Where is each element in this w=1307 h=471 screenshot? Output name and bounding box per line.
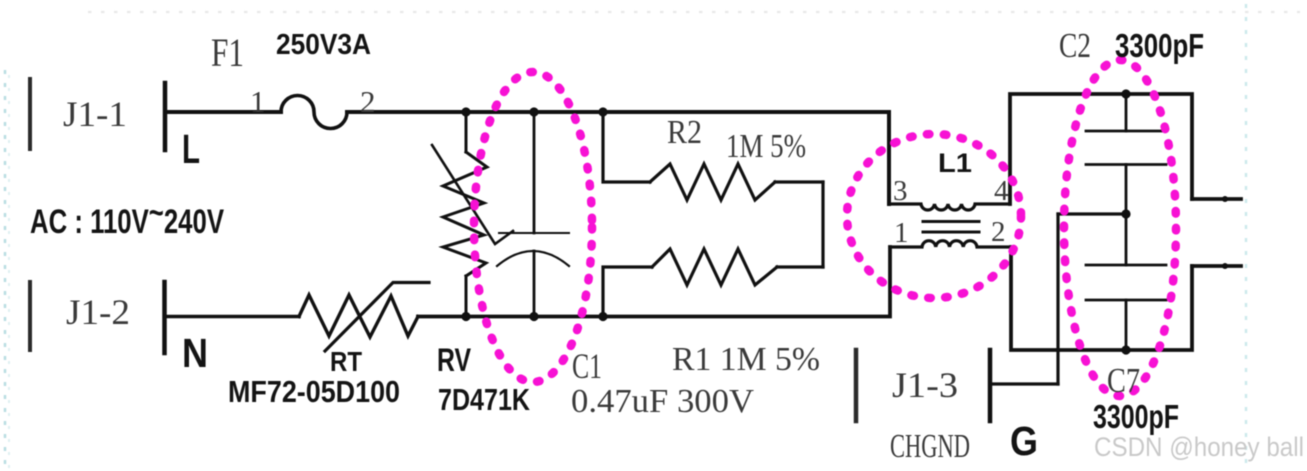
- svg-text:1: 1: [250, 84, 266, 119]
- junction dot stub bottom: [1222, 263, 1228, 269]
- wire output stub bottom: [1192, 264, 1241, 268]
- capacitor C1 lead bottom: [533, 251, 536, 317]
- wire R2 to R1 right vertical: [821, 182, 824, 267]
- capacitor C1 lead top: [533, 112, 536, 233]
- varistor RV lead bottom: [465, 276, 468, 317]
- border dotted left: [4, 70, 7, 468]
- inductor L1 top winding: [889, 204, 1010, 210]
- svg-text:J1-1: J1-1: [63, 94, 127, 134]
- capacitor C7 plate 1: [1086, 264, 1166, 267]
- capacitor C7 plate 2: [1086, 299, 1166, 302]
- svg-text:F1: F1: [211, 30, 244, 75]
- svg-text:1M 5%: 1M 5%: [726, 128, 806, 165]
- junction dot N at C1: [529, 312, 538, 321]
- junction dot C2-C7 mid: [1121, 209, 1130, 218]
- resistor R2 zigzag: [650, 164, 775, 200]
- svg-text:L: L: [182, 126, 200, 172]
- connector J1-3 terminal bar: [988, 350, 993, 421]
- junction dot L at R2: [598, 107, 607, 116]
- svg-text:AC : 110V~240V: AC : 110V~240V: [30, 194, 224, 241]
- connector J1-1 terminal bar: [163, 83, 168, 150]
- wire ground branch to J1-3: [990, 382, 1058, 385]
- capacitor C7 lead top: [1125, 214, 1128, 265]
- svg-text:3300pF: 3300pF: [1093, 398, 1179, 435]
- wire right edge vertical bottom: [1126, 266, 1192, 350]
- wire L node C1 to node R2: [534, 110, 603, 114]
- connector J1-3 outer bar: [854, 350, 859, 421]
- capacitor C1 top plate: [499, 232, 569, 234]
- svg-text:7D471K: 7D471K: [438, 382, 530, 417]
- wire L node R2 to L1 pin3 corner: [603, 112, 889, 204]
- capacitor C2 lead bottom: [1125, 165, 1128, 215]
- svg-text:G: G: [1010, 418, 1038, 464]
- junction dot C7 bottom: [1121, 345, 1130, 354]
- svg-text:C7: C7: [1107, 361, 1140, 400]
- wire L1 pin2 down to right bottom rail: [1011, 247, 1126, 350]
- wire L from fuse to node RV: [347, 110, 466, 114]
- connector J1-2 outer bar: [28, 282, 32, 350]
- highlight ellipse around L1: [847, 134, 1021, 298]
- resistor R1 left lead: [603, 267, 652, 317]
- thermistor RT slash: [325, 283, 429, 352]
- junction dot C2 top: [1121, 89, 1130, 98]
- wire N node R1 to L1 pin1 corner: [603, 247, 890, 317]
- wire right top rail to right edge vertical: [1126, 94, 1192, 199]
- resistor R2 right lead: [775, 180, 823, 183]
- junction dot stub top: [1222, 196, 1228, 202]
- svg-text:0.47uF 300V: 0.47uF 300V: [571, 383, 754, 420]
- wire L node RV to node C1: [466, 110, 534, 114]
- resistor R1 zigzag: [652, 249, 777, 285]
- svg-text:2: 2: [991, 216, 1006, 248]
- inductor L1 core line 2: [923, 231, 979, 234]
- svg-text:R2: R2: [667, 114, 702, 151]
- wire L1 pin4 up to right top rail: [1010, 94, 1126, 204]
- svg-text:C1: C1: [572, 346, 602, 386]
- connector J1-2 terminal bar: [162, 282, 167, 353]
- capacitor C7 lead bottom: [1125, 300, 1128, 350]
- junction dot L at RV: [461, 107, 470, 116]
- svg-text:J1-2: J1-2: [66, 292, 130, 332]
- wire N from RT to node RV: [418, 315, 466, 319]
- svg-text:4: 4: [994, 175, 1009, 207]
- svg-text:3300pF: 3300pF: [1115, 27, 1204, 64]
- svg-text:MF72-05D100: MF72-05D100: [228, 374, 400, 409]
- svg-text:J1-3: J1-3: [892, 365, 958, 405]
- thermistor RT zigzag: [299, 295, 418, 337]
- varistor RV lead top: [465, 112, 468, 152]
- capacitor C2 plate 2: [1086, 163, 1166, 166]
- wire N from J1-2 to RT: [165, 315, 300, 319]
- wire N node RV to node C1: [466, 315, 534, 319]
- svg-text:2: 2: [360, 84, 376, 119]
- inductor L1 core line 1: [923, 220, 979, 223]
- svg-text:3: 3: [893, 175, 908, 207]
- capacitor C2 lead top: [1125, 94, 1128, 131]
- svg-text:250V3A: 250V3A: [276, 29, 371, 61]
- wire ground branch vertical: [1056, 214, 1059, 384]
- svg-text:CHGND: CHGND: [890, 428, 970, 465]
- svg-text:RV: RV: [437, 342, 472, 378]
- svg-text:RT: RT: [330, 346, 362, 377]
- resistor R2 left lead: [603, 112, 650, 182]
- svg-text:R1 1M 5%: R1 1M 5%: [672, 341, 820, 378]
- highlight ellipse around C1: [474, 72, 592, 382]
- svg-text:1: 1: [894, 217, 909, 249]
- inductor L1 bottom winding: [890, 241, 1011, 247]
- wire output stub top: [1192, 197, 1241, 201]
- fuse F1 body: [281, 96, 347, 129]
- highlight ellipse around C2 C7: [1064, 60, 1176, 396]
- svg-text:C2: C2: [1059, 26, 1091, 65]
- svg-text:CSDN @honey ball: CSDN @honey ball: [1094, 432, 1304, 462]
- connector J1-1 outer bar: [28, 79, 32, 149]
- junction dot L at C1: [529, 107, 538, 116]
- wire ground branch horizontal: [1058, 212, 1126, 215]
- varistor RV slash: [432, 145, 513, 244]
- varistor RV zigzag: [443, 152, 487, 276]
- svg-text:N: N: [182, 330, 208, 376]
- resistor R1 right lead: [777, 265, 823, 268]
- junction dot N at R1: [598, 312, 607, 321]
- capacitor C1 curved plate: [497, 251, 569, 266]
- junction dot N at RV: [461, 312, 470, 321]
- svg-text:L1: L1: [938, 148, 972, 178]
- border dotted right: [1245, 4, 1248, 468]
- capacitor C2 plate 1: [1086, 130, 1166, 133]
- wire N node C1 to node R1: [534, 315, 603, 319]
- border dotted top: [88, 11, 1300, 13]
- wire L from J1-1 to fuse: [165, 110, 281, 114]
